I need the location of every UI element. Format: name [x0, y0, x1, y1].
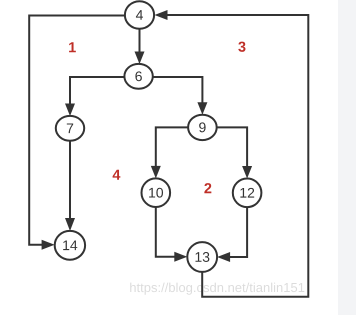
wire edge 12 to 13: [229, 207, 248, 257]
arrowhead into node 10: [151, 166, 161, 179]
node 7 digit: [67, 123, 73, 133]
node 10 digits: [149, 188, 163, 198]
node 14 circle: [55, 231, 85, 260]
region label 3 (red): [238, 42, 245, 52]
wire edge 4 to 6: [139, 29, 141, 54]
wire edge 9 to 12: [217, 127, 247, 167]
arrowhead into node 13 left: [174, 252, 187, 262]
arrowhead into node 9: [197, 102, 207, 115]
node 6 digit: [135, 71, 141, 81]
node 14 digits: [63, 240, 77, 250]
node 10 circle: [142, 178, 171, 207]
arrowhead into node 13 right: [217, 252, 230, 262]
arrowhead into node 4: [155, 10, 168, 20]
arrowhead into node 14 top: [65, 218, 75, 231]
watermark text (blog URL): [130, 283, 304, 295]
region label 2 (red): [204, 183, 211, 193]
node 9 circle: [188, 115, 217, 140]
node 12 digits: [240, 188, 254, 198]
wire edge 10 to 13: [156, 207, 176, 257]
node 4 circle: [125, 1, 154, 29]
page gray strip right: [338, 0, 356, 315]
wire edge 4 to 14 (left route): [29, 16, 126, 245]
node 9 digit: [199, 122, 205, 132]
node 13 digits: [195, 252, 209, 262]
node 12 circle: [233, 179, 262, 208]
wire edge 6 to 7: [70, 77, 124, 105]
node 6 circle: [124, 64, 152, 89]
wire edge 9 to 10: [156, 127, 188, 167]
region label 1 (red): [69, 42, 76, 52]
region label 4 (red): [113, 170, 121, 180]
arrowhead into node 6: [135, 52, 145, 65]
wire edge 13 to 4 (bottom-right route): [166, 15, 309, 297]
wire edge 6 to 9: [153, 77, 203, 104]
arrowhead into node 12: [242, 166, 252, 179]
node 13 circle: [187, 242, 217, 272]
node 7 circle: [56, 116, 84, 141]
arrowhead into node 14 left: [42, 240, 55, 250]
node 4 digit: [136, 10, 143, 20]
wire edge 7 to 14: [69, 141, 71, 220]
arrowhead into node 7: [65, 104, 75, 117]
